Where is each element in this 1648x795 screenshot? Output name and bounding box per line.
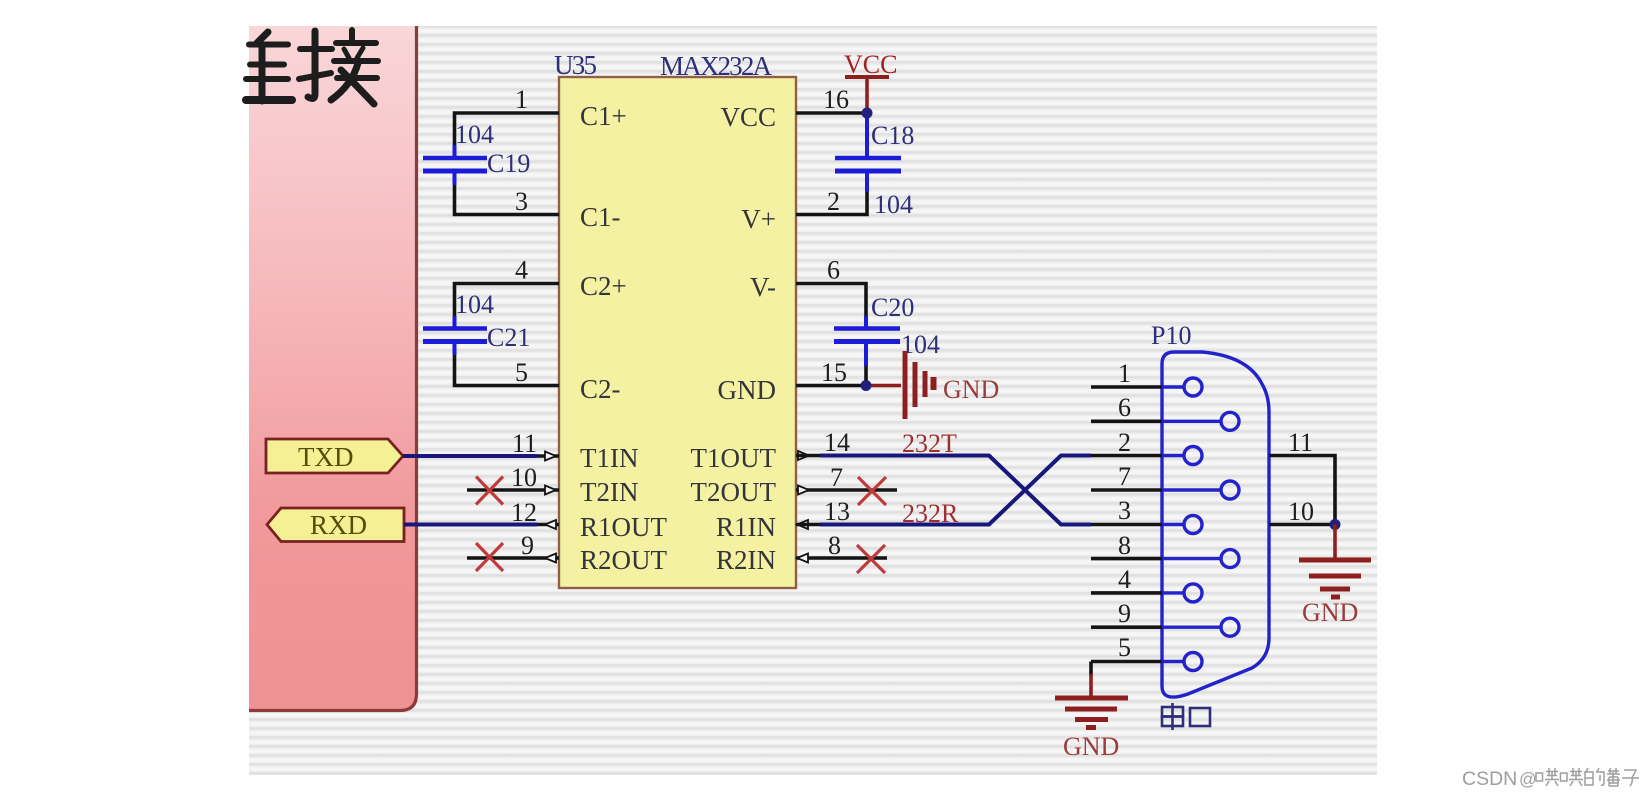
svg-text:R1IN: R1IN bbox=[716, 512, 776, 542]
svg-text:10: 10 bbox=[1288, 497, 1314, 526]
no-connect X pin7 bbox=[858, 477, 886, 505]
svg-text:10: 10 bbox=[511, 463, 537, 492]
DB9 pin stubs and numbers bbox=[1091, 387, 1162, 662]
capacitor C18 bbox=[835, 115, 901, 192]
svg-text:9: 9 bbox=[1118, 599, 1131, 628]
pin7 stub (no connect) bbox=[796, 488, 897, 492]
svg-text:1: 1 bbox=[1118, 359, 1131, 388]
svg-text:VCC: VCC bbox=[844, 50, 897, 79]
pin14 output arrow bbox=[798, 451, 809, 460]
svg-text:RXD: RXD bbox=[310, 510, 367, 540]
IC right pin labels bbox=[691, 102, 777, 575]
IC U35 MAX232A body bbox=[559, 77, 796, 588]
no-connect X pin10 bbox=[476, 477, 503, 505]
svg-text:8: 8 bbox=[1118, 531, 1131, 560]
svg-text:R1OUT: R1OUT bbox=[580, 512, 668, 542]
svg-text:5: 5 bbox=[515, 358, 528, 387]
svg-text:R2IN: R2IN bbox=[716, 545, 776, 575]
svg-text:T1OUT: T1OUT bbox=[691, 443, 777, 473]
svg-text:GND: GND bbox=[943, 375, 999, 404]
capacitor C19 bbox=[423, 145, 487, 185]
svg-text:2: 2 bbox=[827, 187, 840, 216]
pin numbers right of IC bbox=[821, 85, 850, 560]
wire pin4 to C21 bbox=[455, 284, 560, 319]
svg-text:9: 9 bbox=[521, 531, 534, 560]
svg-text:MAX232A: MAX232A bbox=[660, 51, 773, 81]
svg-text:6: 6 bbox=[827, 256, 840, 285]
wire pin6 to C20 bbox=[796, 284, 866, 319]
no-connect X pin9 bbox=[476, 543, 503, 571]
svg-text:13: 13 bbox=[824, 497, 850, 526]
svg-text:104: 104 bbox=[874, 190, 913, 219]
svg-text:14: 14 bbox=[824, 428, 850, 457]
TXD port flag bbox=[266, 439, 403, 473]
pin12 output arrow bbox=[545, 520, 556, 529]
IC left pin labels bbox=[580, 101, 668, 575]
svg-text:16: 16 bbox=[823, 85, 849, 114]
left pink panel bbox=[249, 26, 417, 711]
svg-text:3: 3 bbox=[515, 187, 528, 216]
connector P10 DB9 outline bbox=[1162, 352, 1269, 697]
RXD port flag bbox=[267, 508, 404, 542]
svg-text:232T: 232T bbox=[902, 429, 957, 458]
pin8 stub (no connect) bbox=[796, 556, 887, 560]
svg-text:C2+: C2+ bbox=[580, 271, 627, 301]
svg-text:7: 7 bbox=[830, 463, 843, 492]
ground GND right bbox=[1299, 525, 1371, 598]
chinese heading 连接 (drawn strokes) bbox=[246, 30, 378, 104]
ground GND bottom (DB9 pin5) bbox=[1089, 662, 1093, 677]
svg-text:V+: V+ bbox=[741, 204, 776, 234]
DB9 pin10 wire bbox=[1269, 523, 1335, 527]
svg-text:C1-: C1- bbox=[580, 202, 621, 232]
svg-text:232R: 232R bbox=[902, 499, 959, 528]
pin numbers left of IC bbox=[511, 85, 537, 560]
watermark 噗噗的罐子 (drawn strokes) bbox=[1536, 768, 1639, 786]
net 232R wire (R1IN to DB9 pin2, crossing) bbox=[796, 523, 820, 527]
wire pin15 bbox=[796, 353, 866, 386]
svg-text:T2OUT: T2OUT bbox=[691, 477, 777, 507]
svg-text:GND: GND bbox=[718, 375, 777, 405]
svg-text:C1+: C1+ bbox=[580, 101, 627, 131]
svg-text:104: 104 bbox=[455, 120, 494, 149]
pin13 input arrow bbox=[797, 520, 808, 529]
svg-text:C18: C18 bbox=[871, 121, 914, 150]
svg-text:C19: C19 bbox=[487, 149, 530, 178]
wire RXD to pin12 bbox=[404, 523, 537, 527]
wire TXD to pin11 bbox=[403, 454, 537, 458]
ground at pin15 (sideways) bbox=[866, 351, 934, 419]
DB9 internal pin wires and holes bbox=[1162, 378, 1239, 671]
svg-text:11: 11 bbox=[1288, 428, 1313, 457]
wire pin3 to C19 bbox=[455, 183, 560, 215]
svg-text:T2IN: T2IN bbox=[580, 477, 638, 507]
wire pin16 VCC bbox=[796, 111, 867, 115]
capacitor C20 bbox=[834, 316, 900, 366]
svg-text:T1IN: T1IN bbox=[580, 443, 638, 473]
svg-text:5: 5 bbox=[1118, 633, 1131, 662]
svg-text:C21: C21 bbox=[487, 323, 530, 352]
no-connect X pin8 bbox=[857, 545, 885, 573]
net 232T wire (T1OUT to DB9 pin3, crossing) bbox=[796, 454, 820, 458]
striped schematic background bbox=[249, 26, 1377, 775]
svg-text:GND: GND bbox=[1063, 732, 1119, 761]
svg-text:7: 7 bbox=[1118, 462, 1131, 491]
wire pin5 to C21 bbox=[455, 353, 560, 386]
svg-text:8: 8 bbox=[828, 531, 841, 560]
junction at pin10 bbox=[1330, 519, 1341, 530]
svg-text:@: @ bbox=[1519, 769, 1537, 789]
svg-text:P10: P10 bbox=[1151, 321, 1191, 350]
junction at pin16 bbox=[862, 108, 873, 119]
svg-text:15: 15 bbox=[821, 358, 847, 387]
pin7 output arrow bbox=[798, 486, 809, 495]
VCC power symbol bbox=[845, 77, 889, 112]
svg-text:TXD: TXD bbox=[298, 442, 354, 472]
svg-text:6: 6 bbox=[1118, 393, 1131, 422]
svg-text:104: 104 bbox=[455, 290, 494, 319]
pin11 input arrow bbox=[545, 452, 556, 461]
svg-text:4: 4 bbox=[515, 256, 528, 285]
pin9 stub (no connect) bbox=[467, 556, 559, 560]
svg-text:R2OUT: R2OUT bbox=[580, 545, 668, 575]
svg-text:U35: U35 bbox=[554, 50, 597, 80]
svg-text:3: 3 bbox=[1118, 496, 1131, 525]
svg-text:C2-: C2- bbox=[580, 374, 621, 404]
junction at pin15 bbox=[861, 380, 872, 391]
svg-text:C20: C20 bbox=[871, 293, 914, 322]
svg-text:2: 2 bbox=[1118, 428, 1131, 457]
DB9 pin11 wire bbox=[1269, 456, 1335, 525]
svg-text:CSDN: CSDN bbox=[1462, 768, 1517, 790]
wire pin1 to C19 bbox=[455, 113, 868, 386]
svg-text:4: 4 bbox=[1118, 565, 1131, 594]
wire pin2 to C18 bbox=[796, 183, 867, 215]
pin8 input arrow bbox=[797, 554, 808, 563]
label 串口 (drawn strokes) bbox=[1162, 703, 1210, 730]
svg-text:GND: GND bbox=[1302, 598, 1358, 627]
pin10 input arrow bbox=[545, 486, 556, 495]
svg-text:11: 11 bbox=[512, 429, 537, 458]
pin10 stub (no connect) bbox=[467, 488, 559, 492]
pin9 output arrow bbox=[545, 554, 556, 563]
svg-text:1: 1 bbox=[515, 85, 528, 114]
svg-text:V-: V- bbox=[750, 272, 776, 302]
capacitor C21 bbox=[423, 316, 487, 355]
svg-text:VCC: VCC bbox=[720, 102, 776, 132]
